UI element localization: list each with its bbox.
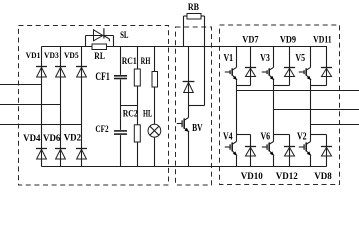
svg-text:RL: RL	[94, 50, 105, 61]
svg-text:VD5: VD5	[64, 50, 79, 59]
svg-text:RC2: RC2	[123, 108, 138, 119]
transistor V4	[225, 135, 237, 167]
wire: chopper node tie	[189, 105, 205, 107]
svg-text:VD1: VD1	[26, 50, 41, 59]
wire: collector junction of V2	[311, 134, 327, 136]
wire: emitter junction of V5	[311, 85, 327, 87]
wire: freewheel diode branch VD9	[289, 47, 291, 86]
wire: phase-leg midpoint vertical 1	[236, 80, 238, 134]
wire: collector drop of V3	[273, 47, 275, 68]
dashed enclosure: inverter unit box	[220, 25, 340, 185]
dashed enclosure: rectifier/filter unit box	[19, 26, 169, 186]
diode VD5	[76, 67, 87, 78]
svg-text:VD2: VD2	[64, 133, 82, 143]
svg-text:VD6: VD6	[43, 134, 61, 144]
wire: freewheel diode branch VD11	[326, 47, 328, 86]
transistor V5	[299, 67, 311, 80]
wire: freewheel diode branch VD8	[326, 135, 328, 167]
wire: motor output line 2	[274, 109, 359, 111]
diode VD11	[321, 68, 332, 77]
svg-text:VD12: VD12	[276, 172, 298, 182]
svg-text:RH: RH	[141, 56, 151, 66]
wire: RB left leg	[184, 16, 188, 47]
wire: motor output line 3	[311, 124, 359, 126]
svg-text:V4: V4	[223, 131, 233, 142]
resistor RC2	[134, 125, 140, 142]
svg-text:V5: V5	[295, 53, 305, 64]
wire: DC- bottom bus	[42, 166, 327, 168]
diode VD9	[284, 68, 295, 77]
wire: collector junction of V4	[237, 134, 251, 136]
lamp HL	[148, 124, 161, 137]
svg-text:BV: BV	[192, 122, 203, 134]
wire: motor output line 1	[237, 90, 359, 92]
wire: capacitor branch	[120, 47, 122, 167]
svg-text:RB: RB	[188, 1, 199, 12]
svg-text:V1: V1	[223, 53, 233, 64]
wire: AC input phase R	[0, 84, 42, 86]
wire: collector junction of V6	[274, 134, 290, 136]
svg-text:VD4: VD4	[23, 134, 41, 144]
transistor V3	[262, 67, 274, 80]
diode VD10	[245, 147, 256, 157]
capacitor CF1	[114, 75, 128, 80]
transistor V1	[225, 67, 237, 80]
diode VD3	[55, 67, 66, 78]
wire: DC+ top bus	[42, 46, 328, 48]
diode VD6	[55, 149, 66, 160]
thyristor SL	[94, 28, 110, 41]
wire: AC input phase S	[0, 104, 61, 106]
wire: rectifier leg 3 vertical	[81, 47, 83, 167]
wire: phase-leg midpoint vertical 3	[310, 80, 312, 134]
resistor RL	[92, 44, 107, 50]
wire: freewheel diode branch VD12	[289, 135, 291, 167]
wire: RB right leg	[201, 16, 205, 106]
diode VD12	[284, 147, 295, 157]
svg-text:HL: HL	[143, 108, 152, 118]
wire: freewheel diode branch VD10	[250, 135, 252, 167]
resistor RC1	[134, 69, 140, 86]
svg-text:V3: V3	[260, 53, 270, 64]
wire: rectifier leg 1 vertical	[41, 47, 43, 167]
wire: midpoint tie CF-RC	[121, 105, 138, 107]
wire: SL bypass branch	[86, 36, 114, 47]
diode in brake chopper	[183, 82, 195, 93]
svg-text:VD11: VD11	[313, 34, 332, 45]
svg-text:RC1: RC1	[122, 55, 137, 66]
dashed enclosure: brake chopper unit box	[176, 27, 212, 185]
capacitor CF2	[114, 130, 128, 135]
svg-text:VD3: VD3	[44, 50, 59, 59]
diode VD7	[245, 68, 256, 77]
transistor V2	[299, 135, 311, 167]
svg-text:V6: V6	[260, 132, 270, 143]
svg-text:CF2: CF2	[95, 123, 108, 134]
transistor V6	[262, 135, 274, 167]
svg-text:V2: V2	[297, 132, 307, 143]
wire: AC input phase T	[0, 124, 82, 126]
wire: lamp branch	[154, 47, 156, 167]
svg-text:SL: SL	[120, 29, 129, 41]
transistor BV	[177, 106, 189, 167]
diode VD8	[321, 147, 332, 157]
resistor RB	[187, 14, 201, 20]
wire: balancing resistor branch	[137, 47, 139, 167]
wire: emitter junction of V1	[237, 85, 251, 87]
diode VD1	[36, 67, 47, 78]
svg-text:VD8: VD8	[314, 172, 332, 182]
diode VD2	[76, 149, 87, 160]
svg-text:VD7: VD7	[242, 34, 259, 45]
wire: emitter junction of V3	[274, 85, 290, 87]
wire: chopper diode branch	[188, 47, 190, 106]
svg-text:VD9: VD9	[280, 34, 297, 45]
diode VD4	[36, 149, 47, 160]
wire: collector drop of V1	[236, 47, 238, 68]
svg-text:VD10: VD10	[241, 172, 263, 182]
wire: rectifier leg 2 vertical	[60, 47, 62, 167]
resistor RH	[152, 72, 158, 88]
wire: freewheel diode branch VD7	[250, 47, 252, 86]
wire: collector drop of V5	[310, 47, 312, 68]
wire: phase-leg midpoint vertical 2	[273, 80, 275, 134]
svg-text:CF1: CF1	[95, 71, 109, 84]
